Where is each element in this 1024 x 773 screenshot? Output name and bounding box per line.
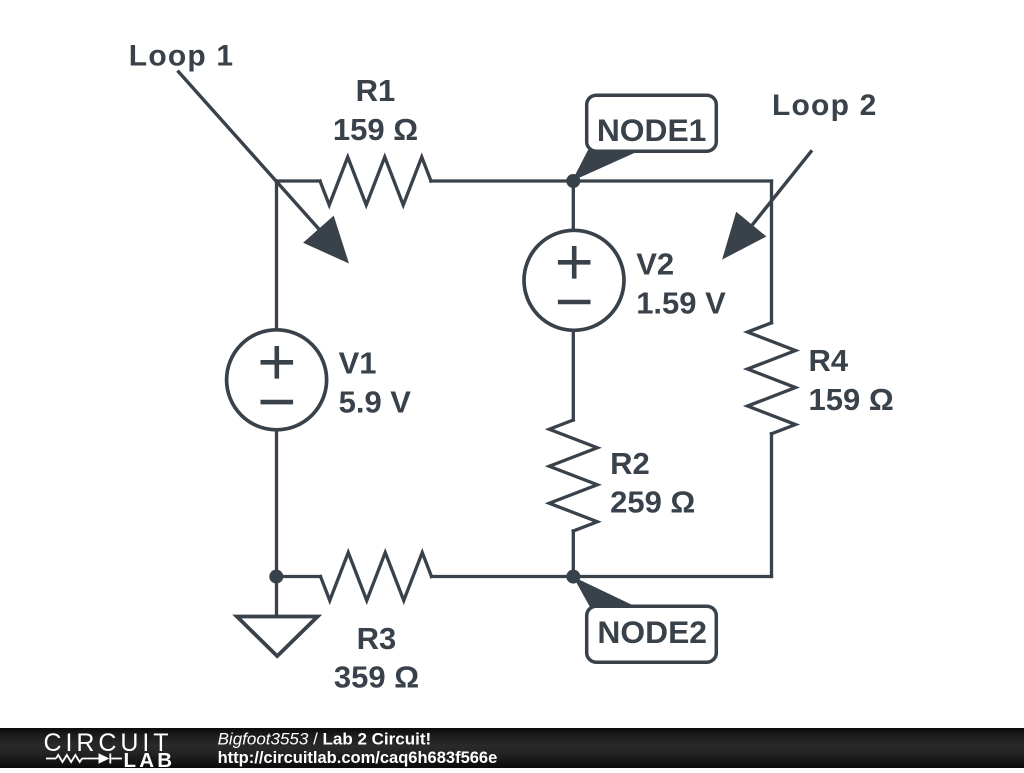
svg-text:R3: R3	[357, 621, 397, 656]
svg-text:Bigfoot3553 / Lab 2 Circuit!: Bigfoot3553 / Lab 2 Circuit!	[218, 730, 432, 749]
wire middle branch (V2 to R2)	[572, 330, 575, 420]
svg-text:5.9 V: 5.9 V	[339, 384, 412, 419]
V1 minus sign	[261, 400, 294, 405]
wire bottom segment (R3 to NODE2 to bottom-right corner)	[432, 575, 772, 578]
wire middle branch bottom (R2 to NODE2)	[572, 531, 575, 577]
logo wire with resistor and diode	[46, 754, 122, 764]
wire right branch lower (R4 to bottom-right corner)	[770, 434, 773, 577]
svg-text:R1: R1	[356, 73, 396, 108]
svg-text:R4: R4	[809, 343, 849, 378]
svg-text:V1: V1	[339, 346, 377, 381]
svg-text:Loop 2: Loop 2	[772, 89, 878, 122]
svg-text:259 Ω: 259 Ω	[610, 485, 695, 520]
resistor R2 zigzag	[549, 420, 597, 531]
resistor R1 zigzag	[320, 157, 431, 205]
wire bottom-left segment (junction to R3)	[277, 575, 321, 578]
wire left branch lower (V1 to bottom junction)	[275, 430, 278, 577]
wire middle branch top (NODE1 to V2)	[572, 181, 575, 231]
wire R1 to node1 and top-right corner	[431, 179, 772, 182]
NODE1 flag tail	[572, 150, 641, 181]
svg-text:http://circuitlab.com/caq6h683: http://circuitlab.com/caq6h683f566e	[218, 749, 498, 767]
svg-text:159 Ω: 159 Ω	[809, 382, 894, 417]
svg-text:V2: V2	[636, 247, 674, 282]
junction dot NODE1	[566, 174, 580, 188]
Loop 2 arrow shaft	[745, 150, 812, 234]
Loop 1 arrowhead	[303, 216, 349, 264]
logo diode triangle	[99, 753, 110, 763]
svg-text:359 Ω: 359 Ω	[334, 660, 419, 695]
Loop 1 arrow shaft	[178, 71, 331, 242]
svg-text:1.59 V: 1.59 V	[636, 286, 726, 321]
voltage source V1 circle	[227, 330, 327, 430]
svg-text:LAB: LAB	[124, 749, 176, 768]
svg-text:R2: R2	[610, 446, 650, 481]
resistor R4 zigzag	[748, 323, 796, 434]
V1 plus sign	[261, 346, 294, 379]
NODE2 flag box	[587, 606, 717, 662]
V2 plus sign	[558, 246, 591, 279]
resistor R3 zigzag	[321, 553, 432, 601]
NODE2 flag tail	[573, 577, 639, 609]
wire right branch upper (corner to R4)	[770, 181, 773, 323]
junction dot NODE2	[566, 570, 580, 584]
svg-text:NODE1: NODE1	[597, 112, 707, 148]
svg-text:Loop 1: Loop 1	[129, 40, 235, 73]
wire ground stub	[275, 577, 278, 617]
junction dot bottom-left	[269, 570, 283, 584]
svg-text:159 Ω: 159 Ω	[333, 112, 418, 147]
wire top-left segment (corner to R1)	[277, 179, 321, 182]
NODE1 flag box	[587, 95, 717, 151]
Loop 2 arrowhead	[722, 212, 766, 260]
voltage source V2 circle	[524, 230, 624, 330]
ground symbol	[237, 617, 318, 657]
svg-text:NODE2: NODE2	[597, 614, 707, 650]
V2 minus sign	[558, 300, 591, 305]
wire left branch upper (corner to V1)	[275, 181, 278, 330]
footer bar	[0, 728, 1024, 768]
